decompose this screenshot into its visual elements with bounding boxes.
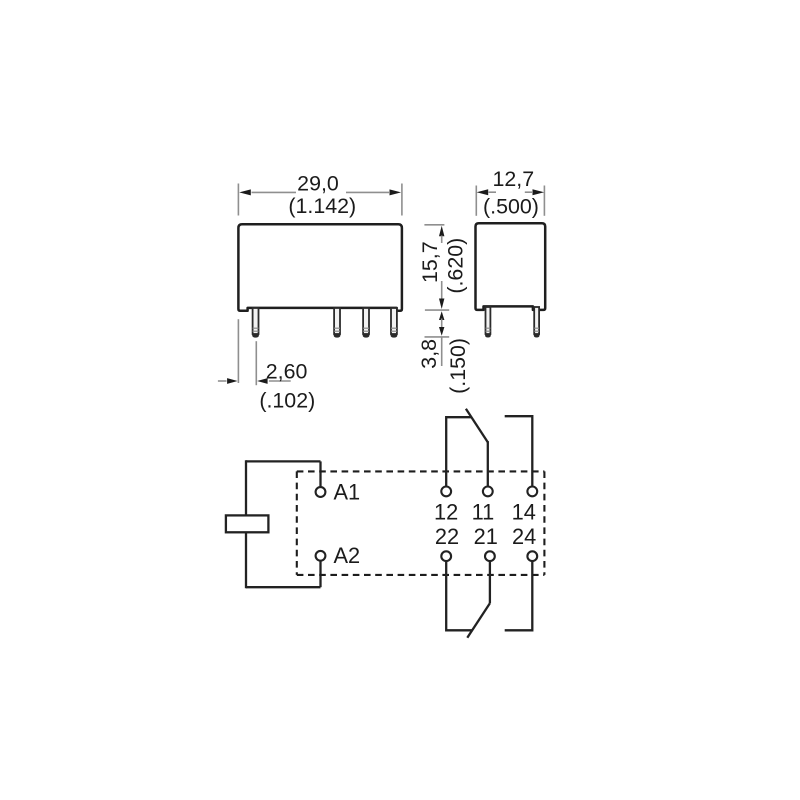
dimension 3,8 mid segment <box>441 319 443 329</box>
dimension 15,7 line upper segment <box>441 236 443 244</box>
svg-text:(1.142): (1.142) <box>288 194 356 218</box>
dimension 12,7 arrow right <box>533 189 545 195</box>
dimension 2,60 arrow left (pointing right) <box>227 378 238 384</box>
switch arm top (NC contact) <box>466 409 488 443</box>
pin 4 (front view) <box>391 308 398 338</box>
dimension 12,7 line left segment <box>489 191 497 193</box>
wire contact 12 (vertical + top bar) <box>446 417 471 486</box>
dimension 2,60 extension line right <box>255 341 257 385</box>
svg-text:29,0: 29,0 <box>297 171 339 195</box>
svg-text:2,60: 2,60 <box>266 359 308 383</box>
dimension 29,0 arrow right <box>390 189 402 195</box>
wire contact 24 (vertical + bottom bar) <box>505 561 533 630</box>
terminal A2 <box>316 551 326 561</box>
dimension 2,60 tail line left <box>218 380 227 382</box>
svg-text:A1: A1 <box>334 479 361 504</box>
svg-text:14: 14 <box>512 500 536 525</box>
terminal 14 <box>527 487 537 497</box>
pin 2 (front view) <box>334 308 341 338</box>
dimension 3,8 bottom tick <box>425 336 450 338</box>
terminal 22 <box>441 551 451 561</box>
svg-text:11: 11 <box>472 500 495 525</box>
dimension 29,0 arrow left <box>239 189 251 195</box>
wire A1 stub <box>319 461 321 486</box>
dimension 2,60 extension line left <box>237 319 239 383</box>
svg-text:(.102): (.102) <box>259 388 315 412</box>
svg-text:(.620): (.620) <box>444 238 468 294</box>
wire contact 14 (vertical + top bar) <box>505 416 533 486</box>
dimension 12,7 arrow left <box>477 189 489 195</box>
svg-text:3,8: 3,8 <box>417 339 441 369</box>
pin left (side view) <box>485 307 491 338</box>
dimension 3,8 arrow up <box>439 311 444 320</box>
dimension 2,60 tail line right <box>269 380 291 382</box>
wire contact 11 (vertical) <box>487 441 489 486</box>
terminal 12 <box>441 487 451 497</box>
pin 1 (front view) <box>252 308 259 338</box>
dimension 12,7 extension line right <box>543 186 545 216</box>
dimension 15,7 top tick <box>424 224 444 226</box>
svg-text:(.150): (.150) <box>446 338 470 394</box>
relay body side view outline <box>476 223 546 310</box>
wire contact 22 (vertical + bottom bar) <box>446 561 471 630</box>
wire A2 stub <box>319 561 321 587</box>
dimension 29,0 line left segment <box>252 191 297 193</box>
svg-text:A2: A2 <box>334 543 361 568</box>
wire coil bottom <box>246 586 321 588</box>
svg-text:24: 24 <box>512 524 536 549</box>
dimension 15,7 / 3,8 middle tick <box>425 309 449 311</box>
relay outline dashed box left <box>296 471 298 575</box>
terminal A1 <box>316 487 326 497</box>
relay outline dashed box bottom <box>297 574 545 576</box>
wire coil left <box>245 460 247 588</box>
dimension 29,0 line right segment <box>346 191 389 193</box>
svg-text:12,7: 12,7 <box>492 167 534 191</box>
switch arm bottom (NC contact) <box>467 603 490 637</box>
dimension 29,0 extension line left <box>237 184 239 216</box>
terminal 11 <box>483 487 493 497</box>
terminal 24 <box>527 551 537 561</box>
svg-text:12: 12 <box>434 500 458 525</box>
svg-text:15,7: 15,7 <box>418 241 442 283</box>
dimension 29,0 extension line right <box>401 184 403 216</box>
wire contact 21 (vertical) <box>489 561 491 603</box>
svg-text:22: 22 <box>435 524 459 549</box>
pin 3 (front view) <box>363 308 370 338</box>
dimension 15,7 line lower segment <box>441 281 443 300</box>
relay outline dashed box top <box>297 470 545 472</box>
dimension 3,8 arrow down <box>439 327 444 336</box>
pin right (side view) <box>534 307 540 338</box>
dimension 2,60 arrow right (pointing left) <box>257 378 268 384</box>
svg-text:(.500): (.500) <box>483 194 539 218</box>
dimension 12,7 extension line left <box>475 186 477 216</box>
wire coil top <box>246 460 321 462</box>
dimension 3,8 line below tick <box>441 338 443 367</box>
terminal 21 <box>485 551 495 561</box>
relay body front view outline <box>238 224 402 310</box>
dimension 15,7 arrow down <box>439 299 444 310</box>
coil K1 (rectangle symbol) <box>226 515 269 532</box>
svg-text:21: 21 <box>474 524 498 549</box>
relay outline dashed box right <box>543 471 545 575</box>
dimension 15,7 arrow up <box>439 226 444 237</box>
dimension 12,7 line right segment <box>525 191 532 193</box>
